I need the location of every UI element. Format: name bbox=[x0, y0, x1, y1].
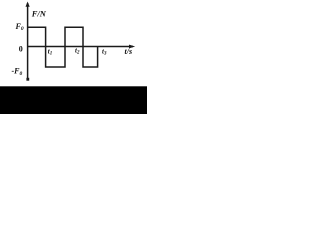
svg-text:0: 0 bbox=[19, 44, 23, 53]
svg-text:F/N: F/N bbox=[31, 9, 47, 19]
svg-text:t/s: t/s bbox=[125, 47, 133, 56]
svg-text:t2: t2 bbox=[75, 47, 80, 56]
svg-text:t1: t1 bbox=[48, 48, 52, 57]
svg-text:-F0: -F0 bbox=[12, 67, 23, 77]
svg-text:F0: F0 bbox=[15, 22, 24, 32]
svg-text:t3: t3 bbox=[102, 48, 107, 57]
